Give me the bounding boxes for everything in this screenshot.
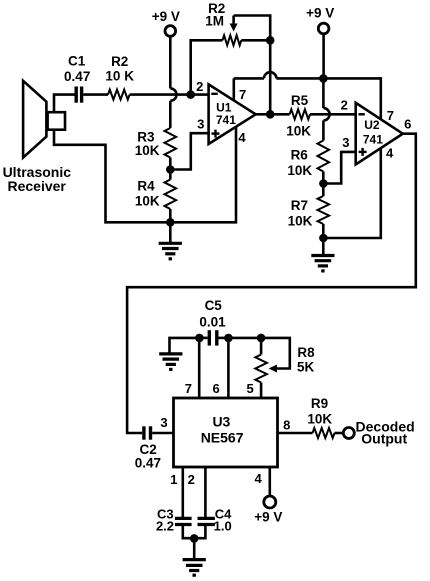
wire: R9 to output terminal	[335, 432, 344, 435]
svg-text:10K: 10K	[286, 123, 311, 138]
op-amp U1 741	[196, 79, 256, 145]
svg-text:7: 7	[239, 87, 246, 102]
speaker: ultrasonic receiver transducer	[3, 81, 72, 194]
resistor R5 10K	[286, 93, 311, 138]
wire: R5 to U2 pin 2	[310, 113, 356, 116]
svg-text:10K: 10K	[135, 143, 160, 158]
wire: U1 pin 4 to ground junction	[170, 127, 236, 223]
svg-text:741: 741	[216, 113, 236, 127]
svg-text:4: 4	[238, 130, 246, 145]
wire: R2 1M wiper loop with arrow	[230, 16, 271, 41]
svg-text:8: 8	[283, 418, 290, 433]
+9 V supply terminal (right)	[306, 6, 334, 34]
svg-text:1M: 1M	[205, 14, 224, 29]
wire: U3 pin 2 down to C4	[204, 467, 207, 517]
svg-text:1.0: 1.0	[214, 519, 232, 534]
svg-text:NE567: NE567	[201, 429, 244, 445]
node: R3/R4 junction	[166, 165, 175, 174]
node: ground junction (speaker, R4, U1 pin 4)	[166, 218, 175, 227]
wire hop over pin-2 wire of U2	[323, 108, 329, 120]
capacitor C4 1.0	[198, 506, 233, 533]
svg-text:10K: 10K	[288, 214, 313, 229]
wire: U3 pin 4 down to +9V	[268, 467, 271, 496]
wire: supply rail to hop	[234, 77, 264, 80]
resistor R9 10K	[307, 396, 334, 438]
svg-text:R8: R8	[297, 345, 315, 360]
wire: pin 6 junction to pin 5 junction	[228, 337, 261, 340]
wire: C1 to R2	[83, 93, 108, 96]
svg-text:2: 2	[341, 98, 348, 113]
svg-text:5K: 5K	[297, 359, 315, 374]
svg-text:Receiver: Receiver	[8, 178, 67, 194]
svg-text:R4: R4	[137, 179, 155, 194]
capacitor C3 2.2	[156, 506, 192, 533]
node: supply rail junction	[319, 74, 328, 83]
svg-text:5: 5	[246, 381, 253, 396]
ground (left, below R4)	[159, 222, 182, 258]
wire: R2 to U1 pin 2 (inverting input)	[130, 93, 209, 96]
svg-text:4: 4	[386, 146, 394, 161]
+9 V supply terminal (left)	[152, 9, 180, 36]
potentiometer R2 1M (feedback)	[205, 1, 241, 46]
svg-text:+9 V: +9 V	[254, 509, 282, 524]
wire: hop to R3	[169, 101, 172, 128]
wire: U2 output pin 6 long run to C2	[127, 134, 416, 433]
svg-text:R6: R6	[291, 147, 309, 162]
wire: C2 to U3 pin 3	[152, 432, 173, 435]
svg-text:3: 3	[160, 415, 167, 430]
svg-text:3: 3	[342, 135, 349, 150]
op-amp U2 741	[341, 98, 412, 165]
svg-text:U3: U3	[212, 413, 230, 429]
wire: speaker bottom terminal to ground junction	[54, 130, 170, 223]
resistor R3 10K	[135, 128, 176, 158]
wire: rail junction down to hop	[322, 78, 325, 108]
svg-text:R7: R7	[291, 198, 308, 213]
wire: R8 to U3 pin 5	[260, 383, 263, 399]
svg-text:0.47: 0.47	[135, 455, 161, 470]
node: pin 7 / C5 left junction	[195, 334, 204, 343]
svg-text:7: 7	[185, 381, 192, 396]
node: feedback right junction	[266, 36, 275, 45]
wire: R6 to R7	[322, 172, 325, 197]
node: U1 output junction	[266, 110, 275, 119]
svg-text:0.47: 0.47	[64, 69, 90, 84]
svg-text:10 K: 10 K	[105, 69, 134, 84]
wire: R7 to ground junction	[322, 224, 325, 238]
svg-text:+9 V: +9 V	[152, 9, 180, 24]
svg-text:C5: C5	[205, 298, 223, 313]
svg-text:7: 7	[387, 108, 394, 123]
svg-text:C1: C1	[68, 54, 86, 69]
wire: supply rail to U2 pin 7	[276, 78, 380, 119]
capacitor C1 0.47	[64, 54, 90, 103]
wire: U1 output to R5	[256, 113, 290, 116]
svg-text:10K: 10K	[135, 193, 160, 208]
wire hop over signal wire	[170, 88, 176, 100]
capacitor C5 0.01	[199, 298, 228, 346]
svg-text:1: 1	[170, 472, 177, 487]
wire: U3 pin 6 up	[227, 338, 230, 398]
node: junction of feedback loop with pin-2 wire	[186, 90, 195, 99]
wire: U3 pin 8 to R9	[278, 432, 313, 435]
svg-text:R2: R2	[111, 54, 128, 69]
svg-text:+9 V: +9 V	[306, 6, 334, 21]
wire: +9V down to hop	[169, 36, 172, 88]
wire hop over feedback wire	[264, 72, 276, 78]
capacitor C2 0.47	[135, 426, 161, 470]
wire: hop down to R6	[322, 121, 325, 141]
svg-text:R9: R9	[311, 396, 328, 411]
wire: R3 to R4	[169, 158, 172, 180]
svg-text:10K: 10K	[287, 163, 312, 178]
node: R6/R7 junction	[319, 179, 328, 188]
IC U3 NE567	[160, 381, 290, 487]
wire: feedback loop left side up from pin-2 node	[191, 40, 223, 94]
wire: divider junction to U2 pin 3	[323, 152, 355, 184]
svg-text:2: 2	[196, 79, 203, 94]
node: C3/C4 ground junction	[190, 534, 199, 543]
wire: C3 and C4 bottoms joined	[183, 526, 206, 538]
svg-text:2.2: 2.2	[156, 519, 174, 534]
wire: R4 to ground junction	[169, 209, 172, 222]
svg-text:6: 6	[404, 116, 411, 131]
svg-text:10K: 10K	[307, 412, 332, 427]
svg-text:3: 3	[197, 117, 204, 132]
wire: R8 wiper loop with arrow	[261, 338, 290, 373]
node: C5 right / pin 6 junction	[224, 334, 233, 343]
svg-text:6: 6	[212, 381, 219, 396]
wire: U2 pin 4 to ground junction	[323, 148, 380, 238]
node: pin 5 / R8 junction	[257, 334, 266, 343]
wire: bias divider to U1 pin 3	[170, 133, 208, 169]
ground (bottom, below C3/C4)	[183, 538, 206, 575]
svg-text:R5: R5	[291, 93, 309, 108]
svg-text:U2: U2	[364, 118, 380, 132]
wire: U1 pin 7 up to supply rail	[233, 78, 236, 100]
resistor R2 10 K	[105, 54, 134, 100]
wire: R2 1M right side to node	[241, 39, 270, 42]
terminal: decoded output	[343, 418, 414, 446]
svg-text:2: 2	[188, 472, 195, 487]
wire: junction down to R8	[260, 338, 263, 355]
ground (below R7)	[311, 238, 334, 271]
ground (left of C5)	[159, 354, 182, 370]
+9 V supply terminal (bottom)	[254, 496, 282, 524]
resistor R6 10K	[287, 141, 329, 179]
potentiometer R8 5K	[255, 345, 315, 382]
wire: junction left to ground	[170, 338, 200, 353]
svg-text:741: 741	[363, 133, 383, 147]
node: R7 ground junction	[319, 234, 328, 243]
wire: speaker top terminal to C1	[54, 95, 75, 113]
resistor R7 10K	[288, 196, 329, 229]
svg-text:4: 4	[254, 471, 262, 486]
wire: U3 pin 1 down to C3	[182, 467, 185, 517]
resistor R4 10K	[135, 179, 176, 209]
wire: +9V to rail junction	[322, 34, 325, 79]
wire: feedback vertical down to U1 output	[269, 40, 272, 114]
wire: U3 pin 7 up	[198, 338, 201, 398]
svg-text:Output: Output	[361, 431, 407, 447]
svg-text:0.01: 0.01	[199, 315, 226, 330]
